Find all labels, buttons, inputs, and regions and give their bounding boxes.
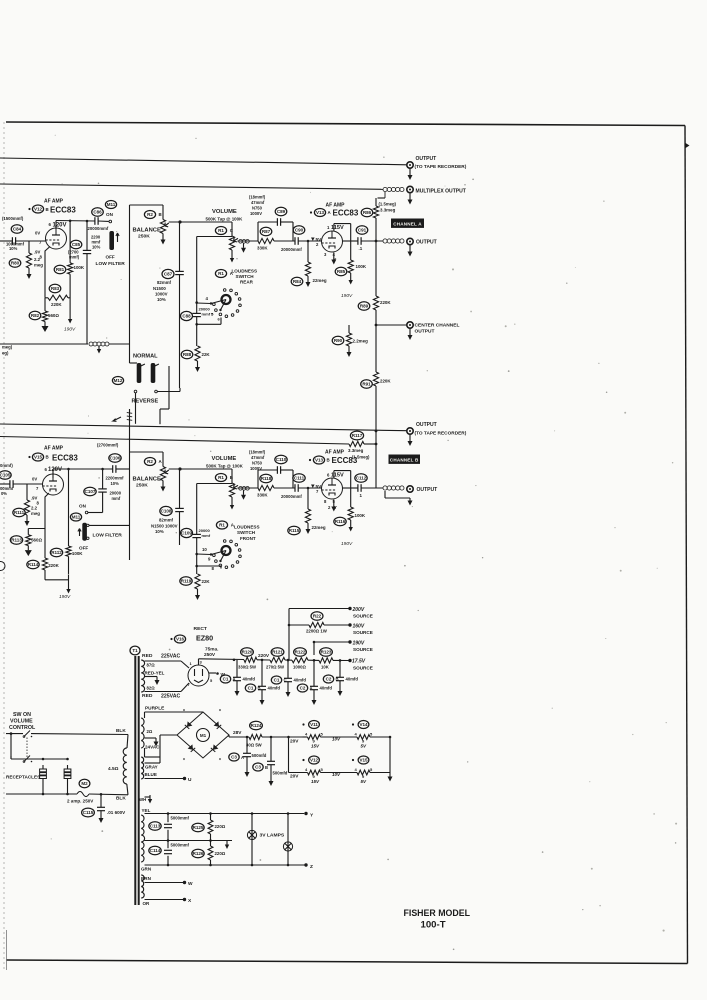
svg-text:OR: OR [143,901,151,906]
svg-text:CENTER CHANNEL: CENTER CHANNEL [415,323,460,329]
svg-text:OUTPUT: OUTPUT [416,422,438,428]
svg-text:mmf: mmf [112,496,121,501]
svg-text:B: B [159,212,162,217]
svg-text:*: * [183,758,185,764]
svg-text:W: W [188,881,193,887]
svg-text:190V: 190V [341,541,353,547]
svg-text:RED: RED [142,653,153,659]
svg-text:C110: C110 [276,457,287,462]
svg-text:SOURCE: SOURCE [353,630,373,635]
svg-text:R123: R123 [321,649,332,654]
svg-text:C3: C3 [231,754,237,759]
svg-text:R122: R122 [295,649,306,654]
svg-text:190V: 190V [341,293,353,299]
svg-text:100-T: 100-T [421,920,446,931]
svg-text:40mfd: 40mfd [268,686,281,691]
svg-text:V13: V13 [316,210,325,215]
svg-text:M11: M11 [72,514,81,519]
svg-text:100K: 100K [355,513,366,518]
svg-text:OFF: OFF [106,255,115,260]
svg-text:meg): meg) [2,345,13,350]
svg-text:RECT: RECT [194,626,207,632]
svg-text:R116: R116 [335,519,346,524]
svg-text:RED-YEL: RED-YEL [145,671,165,676]
svg-text:C2: C2 [326,676,332,681]
svg-text:C105: C105 [0,472,11,477]
svg-text:40mfd: 40mfd [243,677,256,682]
svg-text:115V: 115V [331,225,344,231]
svg-text:BLUE: BLUE [145,772,157,777]
svg-text:10V: 10V [332,772,341,777]
svg-text:VOLUME: VOLUME [10,719,33,725]
svg-text:225VAC: 225VAC [161,694,180,700]
svg-text:R117: R117 [352,433,363,438]
svg-text:1000V: 1000V [250,211,262,216]
svg-text:47mmf: 47mmf [251,455,265,460]
svg-text:2200Ω 1W: 2200Ω 1W [306,629,328,634]
svg-text:SWITCH: SWITCH [237,530,256,535]
svg-text:R120: R120 [242,649,253,654]
svg-text:B: B [336,677,339,682]
svg-text:FISHER MODEL: FISHER MODEL [404,908,471,918]
svg-text:330K: 330K [257,493,268,498]
svg-text:0mmf): 0mmf) [0,463,13,468]
svg-text:CHANNEL A: CHANNEL A [393,221,422,226]
svg-text:ECC83: ECC83 [332,456,358,465]
svg-text:C1: C1 [248,685,254,690]
svg-text:V12: V12 [310,757,319,762]
svg-text:meg: meg [34,263,43,268]
svg-text:R88: R88 [183,352,192,357]
svg-text:B: B [46,207,49,212]
svg-text:mmf: mmf [202,533,211,538]
svg-text:20000mmf: 20000mmf [281,494,302,499]
svg-text:R112: R112 [51,550,62,555]
svg-text:VOLUME: VOLUME [212,209,237,215]
svg-text:560Ω: 560Ω [48,313,59,318]
svg-text:AF AMP: AF AMP [325,450,345,456]
svg-text:R84: R84 [293,279,302,284]
svg-text:10%: 10% [9,246,18,251]
svg-text:3V LAMPS: 3V LAMPS [260,833,285,839]
svg-text:22meg: 22meg [312,525,326,530]
svg-text:560Ω: 560Ω [31,538,42,543]
svg-text:C2: C2 [300,685,306,690]
svg-text:220Ω: 220Ω [215,824,226,829]
svg-text:(18mmf): (18mmf) [249,450,266,455]
svg-text:40mfd: 40mfd [346,677,359,682]
svg-text:R86: R86 [363,210,372,215]
svg-text:BLK: BLK [116,728,126,734]
svg-text:EZ80: EZ80 [196,634,213,643]
svg-text:ECC83: ECC83 [50,206,76,215]
svg-text:R91: R91 [362,381,371,386]
svg-text:0V: 0V [35,231,40,236]
svg-text:10V: 10V [332,737,341,742]
svg-text:220Ω: 220Ω [215,851,226,856]
svg-text:R87: R87 [262,229,271,234]
svg-text:meg: meg [31,511,40,516]
svg-text:C90: C90 [295,227,304,232]
svg-text:2.2: 2.2 [34,257,41,262]
svg-text:1000V: 1000V [250,466,262,471]
svg-text:R115: R115 [289,528,300,533]
svg-text:C91: C91 [358,227,367,232]
svg-text:U: U [188,777,192,783]
svg-text:(1500mmf): (1500mmf) [2,216,24,221]
svg-text:190V: 190V [59,594,71,600]
svg-text:V11: V11 [310,722,318,727]
svg-text:V15: V15 [359,757,368,762]
svg-text:1000V: 1000V [155,292,168,297]
svg-text:OUTPUT: OUTPUT [417,487,439,493]
svg-text:R125: R125 [193,825,204,830]
svg-text:B: B [46,455,49,460]
svg-text:R90: R90 [334,338,343,343]
svg-text:LOUDNESS: LOUDNESS [232,269,258,274]
svg-text:B: B [258,686,261,691]
svg-text:SOURCE: SOURCE [353,647,373,652]
svg-text:10%: 10% [111,481,120,486]
svg-text:LOW FILTER: LOW FILTER [93,533,123,539]
svg-text:500K Tap @ 100K: 500K Tap @ 100K [206,217,244,222]
svg-text:.01 600V: .01 600V [107,810,125,815]
svg-text:SW ON: SW ON [13,712,31,718]
svg-text:R1: R1 [218,475,224,480]
svg-text:5000mmf: 5000mmf [171,843,190,848]
svg-text:250K: 250K [136,483,148,489]
svg-text:20V: 20V [290,774,299,780]
svg-text:47mmf: 47mmf [251,200,265,205]
svg-text:3.3meg: 3.3meg [380,208,396,213]
svg-text:15V: 15V [311,744,320,749]
svg-text:17.5V: 17.5V [352,659,366,665]
svg-text:OFF: OFF [79,546,88,551]
svg-text:20V: 20V [290,739,299,745]
svg-text:SOURCE: SOURCE [353,614,373,619]
svg-text:R81: R81 [56,267,65,272]
svg-text:330K: 330K [257,246,268,251]
svg-text:V12: V12 [34,206,43,211]
svg-text:*: * [219,709,221,715]
svg-text:22K: 22K [202,579,211,584]
svg-text:ECC83: ECC83 [333,209,359,218]
svg-text:250K: 250K [138,234,150,240]
svg-text:75ma.: 75ma. [205,647,218,653]
svg-text:82mmf: 82mmf [157,280,172,285]
svg-text:3.3meg: 3.3meg [348,448,364,453]
svg-text:VOLUME: VOLUME [212,456,237,462]
svg-text:40mfd: 40mfd [294,678,307,683]
svg-text:28V: 28V [233,730,242,736]
svg-text:(2700mmf): (2700mmf) [97,443,119,448]
svg-text:R121: R121 [272,649,283,654]
svg-text:C106: C106 [110,455,121,460]
svg-text:R1: R1 [218,228,224,233]
svg-text:C3: C3 [255,764,261,769]
svg-text:R89: R89 [360,303,369,308]
svg-text:A: A [310,686,313,691]
svg-text:24VAC: 24VAC [145,745,160,750]
svg-text:WH: WH [139,797,146,802]
svg-text:V15: V15 [34,454,43,459]
svg-text:B: B [265,765,268,770]
svg-text:CHANNEL B: CHANNEL B [390,457,419,462]
svg-text:LOW FILTER: LOW FILTER [96,261,126,267]
svg-text:C84: C84 [13,226,22,231]
svg-text:2 amp. 250V: 2 amp. 250V [67,799,93,804]
svg-text:.1: .1 [359,246,363,251]
svg-text:C109: C109 [181,530,192,535]
svg-text:10%: 10% [157,297,166,302]
svg-text:M2: M2 [81,781,88,786]
svg-text:BLK: BLK [116,796,126,802]
svg-text:20000: 20000 [110,491,122,496]
svg-text:FRONT: FRONT [240,536,256,541]
svg-text:AF AMP: AF AMP [44,446,64,452]
svg-text:R2: R2 [147,212,153,217]
svg-text:220K: 220K [380,379,391,384]
svg-text:C108: C108 [161,508,172,513]
svg-text:2200mmf: 2200mmf [106,476,125,481]
svg-text:190V: 190V [64,327,76,333]
svg-text:0%: 0% [1,491,7,496]
svg-text:MULTIPLEX OUTPUT: MULTIPLEX OUTPUT [416,189,467,195]
svg-text:20000mmf: 20000mmf [281,247,302,252]
svg-text:Z: Z [310,864,313,870]
svg-text:(1.5meg): (1.5meg) [379,202,397,207]
svg-text:2.2: 2.2 [31,506,38,511]
svg-text:100K: 100K [356,264,367,269]
svg-text:10%: 10% [92,245,101,250]
svg-text:40mfd: 40mfd [320,686,333,691]
svg-text:AF AMP: AF AMP [44,199,64,205]
svg-text:82Ω: 82Ω [147,686,156,691]
svg-text:R111: R111 [14,510,25,515]
svg-text:YEL: YEL [142,808,151,813]
svg-text:ECC83: ECC83 [52,454,78,463]
svg-text:87Ω: 87Ω [147,663,156,668]
svg-text:1000Ω: 1000Ω [293,665,306,670]
svg-text:220K: 220K [380,300,391,305]
svg-text:T1: T1 [132,648,138,653]
svg-text:NORMAL: NORMAL [133,354,158,360]
svg-text:SWITCH: SWITCH [236,274,255,279]
svg-text:ON: ON [106,212,114,217]
svg-text:A: A [233,677,236,682]
svg-text:5V: 5V [361,779,368,784]
svg-text:M11: M11 [107,202,116,207]
svg-text:4.5Ω: 4.5Ω [108,766,119,772]
svg-text:C85: C85 [72,242,81,247]
svg-text:N750: N750 [252,206,263,211]
svg-text:GRAY: GRAY [145,765,158,770]
svg-text:120V: 120V [53,223,67,229]
svg-text:82mmf: 82mmf [159,518,174,523]
svg-text:BALANCE: BALANCE [133,228,161,234]
svg-text:N750: N750 [252,461,263,466]
svg-text:R114: R114 [28,562,39,567]
svg-text:C87: C87 [164,271,173,276]
svg-text:250V: 250V [204,652,216,658]
svg-text:V16: V16 [176,636,185,641]
svg-text:R124: R124 [251,723,262,728]
svg-text:20000mmf: 20000mmf [88,226,109,231]
svg-text:C114: C114 [150,848,161,853]
svg-text:22K: 22K [202,352,211,357]
svg-text:R126: R126 [193,851,204,856]
svg-text:(18mmf): (18mmf) [249,195,266,200]
svg-text:eg): eg) [2,351,9,356]
svg-text:R82: R82 [31,313,40,318]
svg-text:M12: M12 [114,378,123,383]
svg-text:*: * [183,709,185,715]
svg-text:5000mmf: 5000mmf [171,816,190,821]
svg-text:GRN: GRN [141,867,151,872]
svg-text:2.2meg: 2.2meg [353,339,369,344]
svg-text:RECEPTACLES: RECEPTACLES [6,775,40,780]
svg-text:R1: R1 [218,271,224,276]
svg-text:30Ω 5W: 30Ω 5W [246,743,262,748]
svg-text:270Ω 5W: 270Ω 5W [266,665,284,670]
svg-text:BALANCE: BALANCE [133,477,161,483]
svg-text:N1500 1000V: N1500 1000V [151,524,178,529]
svg-text:C88: C88 [182,313,191,318]
svg-text:100K: 100K [74,265,85,270]
svg-text:(TO TAPE RECORDER): (TO TAPE RECORDER) [415,164,467,170]
svg-text:500mfd: 500mfd [252,753,267,758]
svg-text:C89: C89 [277,209,286,214]
svg-text:0V: 0V [32,477,37,482]
svg-text:330Ω 5W: 330Ω 5W [238,665,256,670]
svg-text:R85: R85 [337,269,346,274]
svg-text:220K: 220K [48,563,59,568]
svg-text:C113: C113 [150,823,161,828]
svg-text:*: * [219,758,221,764]
svg-text:OUTPUT: OUTPUT [415,329,435,335]
svg-text:5V: 5V [361,744,368,749]
svg-text:225VAC: 225VAC [161,654,180,660]
svg-text:R118: R118 [261,476,272,481]
svg-text:160V: 160V [353,624,365,630]
svg-text:V14: V14 [359,722,368,727]
svg-text:REAR: REAR [240,280,254,285]
svg-text:2Ω: 2Ω [147,729,153,734]
svg-text:C111: C111 [294,475,305,480]
svg-text:R2: R2 [147,459,153,464]
svg-text:22meg: 22meg [313,278,327,283]
svg-text:220V: 220V [258,653,270,659]
svg-text:OUTPUT: OUTPUT [416,156,438,162]
svg-text:C115: C115 [83,810,94,815]
svg-text:SOURCE: SOURCE [353,666,373,671]
svg-text:A: A [241,755,244,760]
svg-text:(TO TAPE RECORDER): (TO TAPE RECORDER) [415,431,467,437]
svg-text:C86: C86 [93,209,102,214]
svg-text:M1: M1 [200,733,207,738]
svg-text:R80: R80 [11,260,20,265]
svg-text:C1: C1 [223,676,229,681]
svg-text:15V: 15V [311,779,320,784]
svg-text:10K: 10K [321,665,330,670]
svg-text:120V: 120V [48,467,62,473]
svg-text:100K: 100K [72,551,83,556]
svg-text:10: 10 [202,547,207,552]
svg-text:RED: RED [142,693,153,699]
svg-text:500K Tap @ 100K: 500K Tap @ 100K [206,464,244,469]
svg-text:R119: R119 [181,578,192,583]
svg-text:V13: V13 [315,457,324,462]
svg-text:N1500: N1500 [153,286,166,291]
svg-text:C: C [284,678,287,683]
svg-text:500mfd: 500mfd [273,771,288,776]
svg-text:R113: R113 [11,537,22,542]
svg-text:OUTPUT: OUTPUT [416,240,438,246]
svg-text:PURPLE: PURPLE [145,706,164,712]
svg-text:C107: C107 [85,489,96,494]
svg-text:C1: C1 [274,677,280,682]
svg-text:R22: R22 [313,613,322,618]
svg-text:115V: 115V [331,473,344,479]
svg-text:C112: C112 [356,475,367,480]
svg-text:R1: R1 [219,522,225,527]
svg-text:B: B [327,458,330,463]
svg-text:190V: 190V [353,641,365,647]
svg-text:CONTROL: CONTROL [9,725,36,731]
svg-text:200V: 200V [352,607,365,613]
svg-text:LOUDNESS: LOUDNESS [234,525,260,530]
svg-text:ON: ON [79,504,87,509]
svg-text:220K: 220K [51,302,62,307]
svg-text:R83: R83 [51,286,60,291]
svg-text:10%: 10% [155,529,164,534]
